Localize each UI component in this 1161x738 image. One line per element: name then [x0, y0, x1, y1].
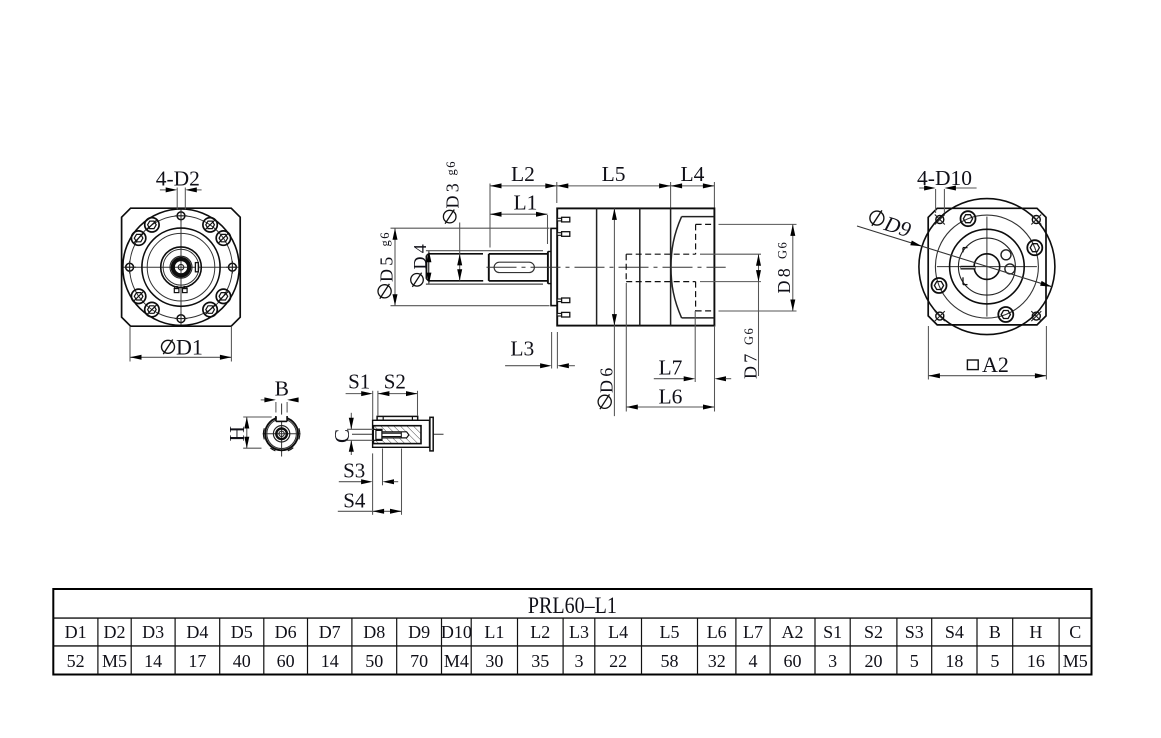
- dimension L2 L5 L4 extension lines: [489, 184, 491, 248]
- motor flange bell curve: [671, 217, 682, 318]
- svg-text:H: H: [1029, 622, 1042, 642]
- right view corner hole D10 #4: [1032, 312, 1040, 320]
- svg-text:L1: L1: [514, 190, 538, 214]
- svg-text:A2: A2: [982, 352, 1009, 377]
- svg-text:L3: L3: [510, 337, 534, 361]
- svg-text:35: 35: [531, 651, 549, 671]
- svg-text:5: 5: [990, 651, 999, 671]
- left view outer flange circle: [123, 209, 239, 325]
- svg-text:D6: D6: [596, 365, 616, 393]
- key section centerline: [352, 433, 444, 435]
- svg-text:D4: D4: [410, 241, 430, 269]
- svg-text:A2: A2: [782, 622, 804, 642]
- left view mounting hole D2 #1: [177, 212, 185, 220]
- left view housing circle: [142, 228, 220, 306]
- left view bottom tab right: [183, 289, 188, 293]
- svg-text:D3: D3: [142, 622, 164, 642]
- svg-text:D5: D5: [231, 622, 253, 642]
- dimension S3: [382, 449, 384, 486]
- left view bottom tab left: [174, 289, 179, 293]
- dimension L4: [671, 185, 715, 187]
- shaft end circle r8: [273, 426, 289, 442]
- right view hub keyway bracket: [962, 248, 964, 253]
- hidden bore D7 dashed: [626, 253, 695, 255]
- svg-text:B: B: [275, 376, 289, 400]
- dimension B: [275, 402, 277, 413]
- right view hex socket screw 3: [932, 278, 947, 293]
- right view large circle D9: [919, 199, 1055, 335]
- svg-text:L6: L6: [707, 622, 727, 642]
- dimension dia-D6: [613, 208, 615, 416]
- svg-text:D9: D9: [408, 622, 430, 642]
- left view mounting hole D2 #4: [229, 263, 237, 271]
- dimension H: [243, 416, 272, 418]
- left view keyway slot: [195, 263, 198, 272]
- right view inner circle: [958, 238, 1015, 295]
- flange pilot plate D5: [551, 228, 557, 305]
- shaft end inner circle: [267, 419, 297, 449]
- left view hex socket bolt 2: [203, 218, 217, 232]
- shaft end view horizontal centerline: [263, 433, 301, 435]
- svg-text:58: 58: [661, 651, 679, 671]
- svg-text:D1: D1: [65, 622, 87, 642]
- dimension dia-D1: [129, 326, 131, 361]
- svg-text:M4: M4: [444, 651, 469, 671]
- svg-text:D7: D7: [319, 622, 341, 642]
- svg-text:18: 18: [945, 651, 963, 671]
- svg-text:L4: L4: [608, 622, 628, 642]
- key section screw bore white: [373, 429, 409, 440]
- middle view shaft centerline: [487, 266, 726, 268]
- key on shaft top: [377, 416, 418, 420]
- svg-text:14: 14: [321, 651, 339, 671]
- svg-text:16: 16: [1027, 651, 1045, 671]
- svg-text:22: 22: [609, 651, 627, 671]
- svg-text:S4: S4: [343, 488, 366, 512]
- shaft keyway section D4 outline: [489, 253, 548, 255]
- svg-text:M5: M5: [102, 651, 127, 671]
- key section end washer: [430, 417, 433, 451]
- svg-text:L4: L4: [681, 162, 705, 186]
- dimension L3: [551, 332, 553, 369]
- svg-text:50: 50: [365, 651, 383, 671]
- left view center circle: [178, 264, 184, 270]
- key section shaft block: [373, 420, 430, 447]
- right view bore circle: [974, 254, 1000, 280]
- dimension 4-D2: [176, 188, 178, 210]
- svg-text:G6: G6: [776, 241, 790, 259]
- dimension dia-D4: [428, 251, 430, 284]
- right view horizontal centerline: [937, 266, 1037, 268]
- right view hex socket screw 2: [961, 211, 976, 226]
- shaft keyway slot: [494, 262, 534, 272]
- svg-text:4-D10: 4-D10: [917, 166, 972, 190]
- svg-text:H: H: [225, 426, 249, 442]
- svg-text:L5: L5: [660, 622, 680, 642]
- svg-text:C: C: [330, 429, 354, 443]
- left view hex socket bolt 3: [145, 218, 159, 232]
- left view mounting hole D2 #2: [177, 315, 185, 323]
- right view corner hole D10 #3: [936, 312, 944, 320]
- shaft end dark ring: [276, 429, 287, 440]
- svg-text:D1: D1: [176, 335, 203, 360]
- right view bolt circle: [935, 215, 1038, 318]
- right view corner hole D10 #2: [1032, 216, 1040, 224]
- svg-text:40: 40: [233, 651, 251, 671]
- gearbox body outline: [557, 208, 714, 325]
- shaft end keyway notch: [277, 415, 287, 421]
- svg-text:30: 30: [485, 651, 503, 671]
- svg-text:g6: g6: [444, 160, 458, 176]
- body front face screw 1 side view: [557, 218, 561, 221]
- svg-text:4: 4: [749, 651, 758, 671]
- left view hex socket bolt 1: [216, 231, 230, 245]
- body front face screw 4 side view: [557, 313, 561, 316]
- svg-text:L5: L5: [602, 162, 626, 186]
- dimension square-A2: [927, 326, 929, 380]
- svg-text:G6: G6: [742, 327, 756, 345]
- left view inner housing circle: [147, 233, 215, 301]
- svg-text:S3: S3: [343, 459, 365, 483]
- shaft end view vertical centerline: [281, 404, 283, 457]
- svg-text:52: 52: [67, 651, 85, 671]
- key section screw: [376, 430, 382, 439]
- right view square flange outline: [928, 208, 1046, 325]
- dimension dia-D5 g6: [391, 227, 550, 229]
- svg-text:D6: D6: [275, 622, 297, 642]
- left view hex socket bolt 6: [145, 302, 159, 316]
- svg-text:D4: D4: [186, 622, 208, 642]
- left view hub inner circle: [163, 249, 199, 285]
- right view pin hole 1: [1001, 250, 1011, 260]
- dimension L2: [490, 185, 557, 187]
- svg-text:4-D2: 4-D2: [156, 166, 200, 190]
- dimension L7: [694, 311, 696, 382]
- svg-text:3: 3: [575, 651, 584, 671]
- shaft end center circle: [279, 431, 284, 436]
- hidden bore D8 dashed: [696, 223, 715, 225]
- shaft section D3 outline: [428, 253, 483, 255]
- shaft end outer circle: [265, 417, 298, 450]
- body section line L4 boundary: [670, 208, 672, 325]
- left view hex socket bolt 5: [131, 289, 145, 303]
- dimension D8 G6: [719, 223, 797, 225]
- svg-text:20: 20: [865, 651, 883, 671]
- right view pin hole 2: [1005, 264, 1015, 274]
- dimension C: [347, 428, 373, 430]
- svg-text:C: C: [1069, 622, 1081, 642]
- svg-text:60: 60: [784, 651, 802, 671]
- left view mounting hole D2 #3: [126, 263, 134, 271]
- right view pilot circle: [950, 229, 1025, 304]
- body front face screw 3 side view: [557, 299, 561, 302]
- left view hex socket bolt 7: [203, 302, 217, 316]
- right view hex socket screw 4: [998, 307, 1013, 322]
- dimension dia-D9 diagonal: [857, 226, 1052, 287]
- svg-text:32: 32: [708, 651, 726, 671]
- svg-text:L7: L7: [658, 356, 682, 380]
- left view: square flange outline: [122, 208, 241, 326]
- svg-text:60: 60: [277, 651, 295, 671]
- dimension L5: [557, 185, 671, 187]
- svg-text:S2: S2: [384, 369, 406, 393]
- svg-text:S1: S1: [348, 369, 370, 393]
- svg-text:D5: D5: [376, 254, 396, 282]
- svg-text:L7: L7: [743, 622, 763, 642]
- svg-text:L6: L6: [659, 385, 683, 409]
- body front face screw 2 side view: [557, 233, 561, 236]
- left view hex socket bolt 8: [216, 289, 230, 303]
- shaft D4 extension lines: [426, 250, 543, 252]
- dimension L1: [547, 215, 549, 244]
- dimension 4-D10: [935, 189, 937, 213]
- svg-text:L2: L2: [530, 622, 550, 642]
- dimension S4: [372, 453, 374, 514]
- left view vertical centerline: [180, 212, 182, 323]
- dimension D7 G6: [700, 253, 761, 255]
- svg-text:PRL60–L1: PRL60–L1: [528, 593, 617, 618]
- right view key cross-section bar: [961, 266, 976, 270]
- svg-text:D2: D2: [104, 622, 126, 642]
- dimension dia-D3 g6: [459, 223, 461, 281]
- svg-text:17: 17: [188, 651, 206, 671]
- parameter table: [53, 589, 1091, 675]
- svg-text:S4: S4: [945, 622, 964, 642]
- body section line 1: [596, 208, 598, 325]
- left view hex socket bolt 4: [131, 231, 145, 245]
- svg-text:14: 14: [144, 651, 162, 671]
- svg-text:70: 70: [410, 651, 428, 671]
- shaft end relief arcs: [262, 428, 265, 439]
- svg-text:S3: S3: [905, 622, 924, 642]
- svg-text:D8: D8: [363, 622, 385, 642]
- svg-text:L2: L2: [511, 162, 535, 186]
- svg-text:5: 5: [910, 651, 919, 671]
- right view vertical centerline: [986, 217, 988, 317]
- svg-text:M5: M5: [1063, 651, 1088, 671]
- right view corner hole D10 #1: [936, 216, 944, 224]
- svg-text:D3: D3: [443, 180, 463, 208]
- svg-text:D10: D10: [441, 622, 472, 642]
- left view bore circle: [170, 256, 192, 278]
- svg-text:3: 3: [828, 651, 837, 671]
- svg-text:L3: L3: [569, 622, 589, 642]
- svg-text:S2: S2: [864, 622, 883, 642]
- svg-text:g6: g6: [378, 231, 392, 247]
- svg-text:L1: L1: [484, 622, 504, 642]
- left view bolt circle: [130, 216, 233, 319]
- svg-text:D7: D7: [740, 351, 760, 379]
- svg-text:B: B: [989, 622, 1001, 642]
- left view horizontal centerline: [125, 266, 236, 268]
- left view hub circle: [161, 247, 202, 288]
- dimension S1 S2: [372, 391, 374, 420]
- body section line 2: [639, 208, 641, 325]
- dimension L6: [625, 283, 627, 412]
- svg-text:D8: D8: [774, 265, 794, 293]
- left view shaft dark ring: [173, 259, 189, 275]
- right view hex socket screw 1: [1027, 240, 1042, 255]
- svg-text:S1: S1: [823, 622, 842, 642]
